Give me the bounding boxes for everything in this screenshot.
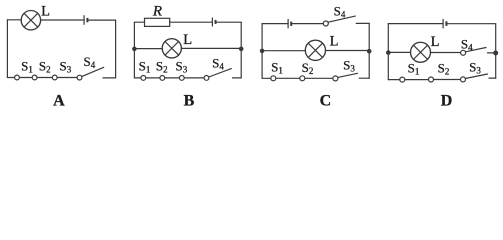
switch S4 open blade (D) bbox=[466, 48, 487, 52]
wire: B bottom right stub bbox=[233, 77, 242, 79]
wire: D top left segment bbox=[388, 23, 443, 25]
wire: B right rail bbox=[240, 22, 242, 78]
switch S2 contact (B) bbox=[160, 76, 165, 81]
wire: C middle branch right bbox=[326, 50, 370, 52]
battery (circuit B) bbox=[212, 18, 215, 27]
svg-text:C: C bbox=[320, 93, 332, 110]
wire: A right rail bbox=[115, 20, 117, 78]
switch S4 pivot contact (A) bbox=[77, 75, 82, 80]
switch S3 contact (A) bbox=[52, 75, 57, 80]
wire: B left rail bbox=[133, 22, 135, 78]
wire: D middle branch left bbox=[388, 51, 410, 53]
wire: C top left segment bbox=[262, 23, 288, 25]
wire: B top left segment bbox=[134, 21, 144, 23]
switch S2 contact (C) bbox=[300, 76, 305, 81]
wire: C right rail bbox=[368, 23, 370, 78]
switch S3 pivot contact (C) bbox=[333, 76, 338, 81]
switch S4 open blade (A) bbox=[82, 67, 104, 76]
switch S4 pivot contact (C) bbox=[323, 21, 328, 26]
switch S2 contact (A) bbox=[32, 75, 37, 80]
svg-text:D: D bbox=[441, 93, 453, 110]
svg-text:L: L bbox=[330, 33, 339, 49]
junction dot D right bbox=[493, 51, 498, 56]
svg-text:L: L bbox=[183, 32, 192, 48]
wire: D bottom right stub bbox=[489, 77, 496, 79]
switch S1 contact (B) bbox=[141, 76, 146, 81]
junction dot B left bbox=[132, 47, 137, 52]
wire: D right rail bbox=[495, 24, 497, 78]
wire: C bottom segments bbox=[262, 77, 333, 79]
battery (circuit D) bbox=[443, 19, 446, 28]
junction dot D left bbox=[386, 50, 391, 55]
switch S1 contact (C) bbox=[271, 76, 276, 81]
svg-text:R: R bbox=[152, 4, 162, 20]
svg-text:L: L bbox=[41, 3, 50, 19]
wire: C left rail bbox=[261, 24, 263, 79]
wire: D battery to right corner bbox=[446, 23, 495, 25]
wire: C middle branch left bbox=[262, 50, 305, 52]
switch S3 pivot contact (D) bbox=[461, 77, 466, 82]
svg-text:B: B bbox=[184, 93, 195, 110]
wire: B middle branch right bbox=[181, 47, 241, 49]
wire: B bottom segments bbox=[134, 77, 204, 79]
lamp L (circuit B) bbox=[162, 39, 181, 58]
wire: B battery to right corner bbox=[216, 21, 242, 23]
lamp L (circuit C) bbox=[305, 40, 325, 60]
battery (circuit C) bbox=[288, 19, 291, 28]
wire: A top left segment bbox=[7, 19, 21, 21]
wire: C bottom right stub bbox=[359, 77, 369, 79]
wire: A battery to right corner bbox=[87, 19, 115, 21]
wire: C battery to switch S4 bbox=[291, 23, 323, 25]
lamp L (circuit D) bbox=[411, 42, 431, 62]
wire: D middle right stub bbox=[488, 52, 496, 54]
wire: D left rail bbox=[387, 24, 389, 80]
wire: A lamp to battery bbox=[41, 19, 85, 21]
wire: D lamp to switch S4 bbox=[431, 52, 461, 54]
switch S3 contact (B) bbox=[179, 76, 184, 81]
resistor R (circuit B) bbox=[145, 18, 170, 26]
wire: A left rail bbox=[6, 20, 8, 78]
wire: D bottom segments bbox=[388, 79, 460, 81]
switch S4 open blade (B) bbox=[209, 69, 232, 77]
svg-text:L: L bbox=[431, 34, 440, 50]
wire: A bottom right stub bbox=[103, 77, 116, 79]
switch S1 contact (D) bbox=[400, 77, 405, 82]
switch S4 pivot contact (D) bbox=[461, 50, 466, 55]
switch S3 open blade (D) bbox=[465, 74, 487, 79]
switch S4 open blade (C) bbox=[328, 16, 355, 22]
switch S2 contact (D) bbox=[429, 77, 434, 82]
svg-text:A: A bbox=[53, 93, 65, 110]
junction dot C left bbox=[260, 49, 265, 54]
switch S1 contact (A) bbox=[15, 75, 20, 80]
junction dot C right bbox=[367, 49, 372, 54]
switch S4 pivot contact (B) bbox=[204, 76, 209, 81]
junction dot B right bbox=[239, 47, 244, 52]
switch S3 open blade (C) bbox=[338, 73, 358, 77]
lamp L (circuit A) bbox=[21, 11, 40, 30]
battery (circuit A) bbox=[84, 15, 87, 25]
wire: B middle branch left bbox=[134, 48, 162, 50]
wire: A bottom segments bbox=[7, 77, 77, 79]
wire: C top right stub bbox=[356, 22, 369, 24]
wire: B resistor to battery bbox=[170, 21, 213, 23]
